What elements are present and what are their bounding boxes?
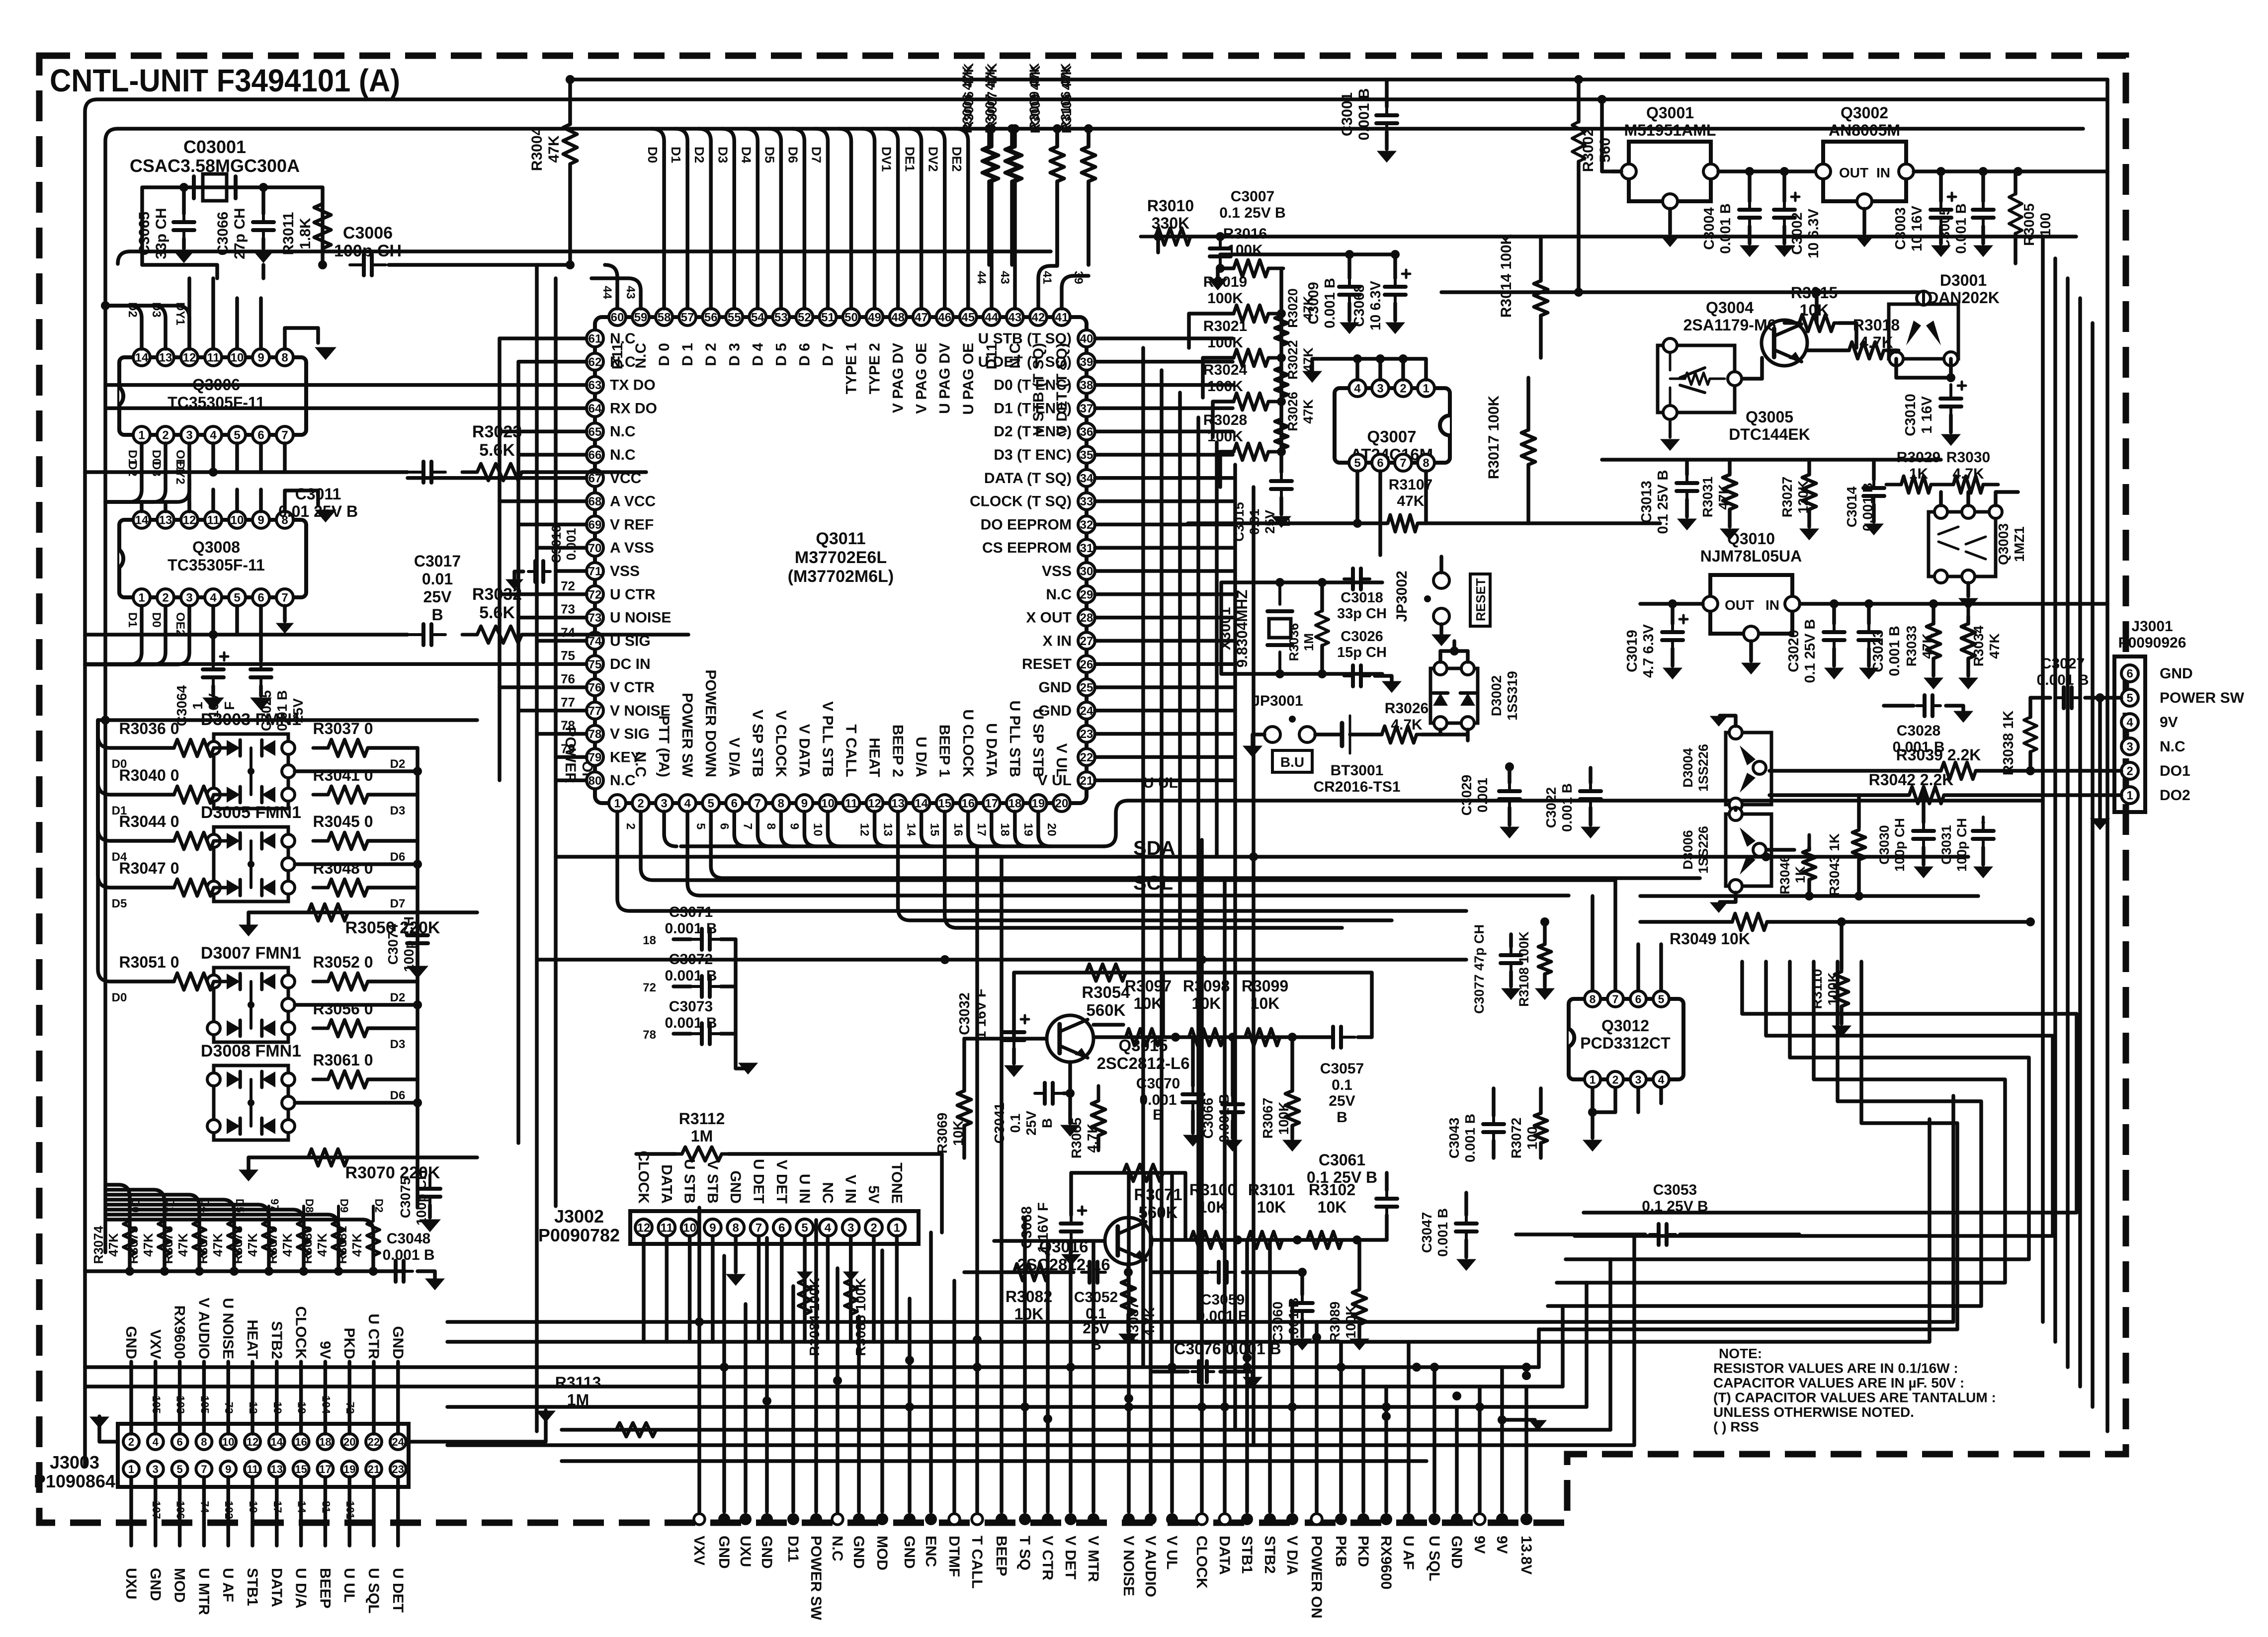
svg-text:TC35305F-11: TC35305F-11 xyxy=(168,556,265,574)
svg-text:JP3002: JP3002 xyxy=(1394,571,1410,622)
svg-text:73: 73 xyxy=(588,611,602,625)
svg-text:C3010: C3010 xyxy=(1903,394,1919,436)
svg-text:CS EEPROM: CS EEPROM xyxy=(982,540,1072,556)
svg-text:9V: 9V xyxy=(317,1341,333,1359)
svg-text:R3034: R3034 xyxy=(1971,625,1986,666)
svg-text:V PAG OE: V PAG OE xyxy=(914,343,930,414)
svg-text:75: 75 xyxy=(561,648,575,663)
svg-text:C3052: C3052 xyxy=(1074,1289,1118,1306)
svg-text:R3078: R3078 xyxy=(230,1226,245,1264)
battery BT3001 xyxy=(1315,733,1342,737)
wire right bundle verticals xyxy=(1141,348,1145,1367)
svg-text:BT3001: BT3001 xyxy=(1331,762,1384,779)
svg-text:D3: D3 xyxy=(715,147,730,163)
ground J3003 right xyxy=(409,1410,546,1442)
svg-text:C3030: C3030 xyxy=(1877,825,1892,865)
svg-text:0.001 B: 0.001 B xyxy=(1718,203,1734,254)
svg-text:10: 10 xyxy=(222,1436,234,1448)
svg-text:5: 5 xyxy=(1658,992,1665,1005)
svg-text:N.C: N.C xyxy=(610,423,636,440)
svg-text:10K: 10K xyxy=(1134,994,1163,1012)
svg-text:0.1 25V B: 0.1 25V B xyxy=(1219,205,1285,221)
svg-text:B: B xyxy=(431,606,443,624)
svg-text:R3007 47K: R3007 47K xyxy=(983,65,998,133)
svg-text:0.01: 0.01 xyxy=(422,570,453,588)
svg-text:15: 15 xyxy=(928,823,941,836)
ground ladder top xyxy=(1218,268,1234,278)
svg-text:R3097: R3097 xyxy=(1125,977,1172,995)
svg-text:UNLESS OTHERWISE NOTED.: UNLESS OTHERWISE NOTED. xyxy=(1713,1404,1914,1420)
svg-text:10 16V: 10 16V xyxy=(1909,205,1925,251)
resistor R3031 xyxy=(1723,460,1737,524)
wire Q3007 bottom pins xyxy=(1355,471,1359,523)
wire right bundle xyxy=(2041,237,2045,1322)
svg-text:D2: D2 xyxy=(126,461,139,477)
svg-text:R3014 100K: R3014 100K xyxy=(1498,234,1514,318)
svg-text:D0: D0 xyxy=(112,991,127,1004)
resistor R3066 xyxy=(1092,1086,1105,1150)
svg-text:R3071: R3071 xyxy=(1134,1185,1182,1204)
svg-text:KEY: KEY xyxy=(610,749,641,765)
wire Q3015 collector row xyxy=(1093,1023,1123,1027)
svg-text:6: 6 xyxy=(257,591,264,605)
resistor R3054 xyxy=(1071,964,1141,981)
svg-text:T CALL: T CALL xyxy=(969,1536,985,1589)
svg-text:1: 1 xyxy=(614,797,620,811)
wire lower rail1 xyxy=(1640,894,1978,898)
svg-text:U AF: U AF xyxy=(1400,1536,1417,1570)
svg-text:10: 10 xyxy=(231,351,244,365)
svg-text:V CLOCK: V CLOCK xyxy=(772,710,789,777)
svg-text:T SQ: T SQ xyxy=(1016,1536,1033,1570)
svg-text:R3110: R3110 xyxy=(1809,969,1825,1009)
svg-text:R3011: R3011 xyxy=(280,212,297,255)
svg-text:1 16V: 1 16V xyxy=(1919,396,1935,433)
svg-text:76: 76 xyxy=(561,671,575,686)
svg-text:6: 6 xyxy=(2126,667,2133,681)
svg-text:C3023: C3023 xyxy=(1870,630,1886,672)
resistor R3032 xyxy=(462,626,537,643)
svg-text:9V: 9V xyxy=(1494,1536,1510,1554)
svg-text:RX DO: RX DO xyxy=(610,400,657,416)
svg-text:20: 20 xyxy=(343,1436,355,1448)
svg-text:NC: NC xyxy=(819,1182,836,1204)
svg-text:V CTR: V CTR xyxy=(610,679,655,696)
svg-text:5: 5 xyxy=(708,797,714,811)
resistor row R3097 R3098 R3099 xyxy=(1093,1035,1332,1039)
svg-text:CNTL-UNIT F3494101 (A): CNTL-UNIT F3494101 (A) xyxy=(50,63,400,98)
svg-text:7: 7 xyxy=(281,429,288,442)
svg-text:D 0: D 0 xyxy=(656,343,672,366)
svg-text:R3031: R3031 xyxy=(1700,477,1715,518)
svg-text:2: 2 xyxy=(1400,382,1406,396)
svg-text:16: 16 xyxy=(951,823,965,836)
ceramic resonator C03001 xyxy=(192,176,196,198)
wire Q3004 collector xyxy=(1807,348,1849,352)
svg-text:D 2: D 2 xyxy=(703,343,719,366)
resistor R3005 xyxy=(2009,179,2022,248)
wire Q3005-Q3004 base xyxy=(1742,377,1762,381)
resistors R3006 R3007 R3009 R3106 risers xyxy=(990,129,994,147)
svg-text:25: 25 xyxy=(1080,681,1093,695)
resistors R3006 R3007 R3009 R3106 xyxy=(982,132,996,196)
wire bottom bus 4 xyxy=(85,1385,1563,1389)
capacitor C3075 xyxy=(428,1175,431,1189)
svg-text:6: 6 xyxy=(717,823,731,829)
svg-text:JP3001: JP3001 xyxy=(1252,693,1303,709)
svg-text:18: 18 xyxy=(998,823,1011,836)
svg-text:74: 74 xyxy=(561,625,575,640)
svg-text:D3: D3 xyxy=(390,804,406,818)
resistor R3039 body xyxy=(1926,762,1991,779)
svg-text:13: 13 xyxy=(271,1463,283,1475)
svg-text:1: 1 xyxy=(138,591,145,605)
svg-text:47K: 47K xyxy=(1301,399,1316,424)
svg-text:D5: D5 xyxy=(112,897,127,910)
wire ladder left leads xyxy=(1189,314,1234,348)
svg-text:1.8K: 1.8K xyxy=(297,218,314,249)
svg-text:0.001 B: 0.001 B xyxy=(1953,203,1969,254)
svg-text:41: 41 xyxy=(1055,311,1069,325)
resistor row R3100 R3101 R3102 xyxy=(1152,1238,1387,1242)
wire Q3012 pins bottom xyxy=(1591,1088,1595,1123)
svg-text:0.1: 0.1 xyxy=(1008,1114,1023,1133)
svg-text:3: 3 xyxy=(661,797,667,811)
IC Q3008 xyxy=(119,520,306,597)
svg-text:Q3007: Q3007 xyxy=(1367,427,1416,446)
svg-text:N.C: N.C xyxy=(610,330,636,347)
svg-text:3: 3 xyxy=(186,429,192,442)
svg-text:U AF: U AF xyxy=(220,1568,236,1602)
resistor ladder R3016-R3028 xyxy=(1219,260,1283,277)
svg-text:D1: D1 xyxy=(126,612,139,628)
svg-text:7: 7 xyxy=(755,797,761,811)
svg-text:BEEP: BEEP xyxy=(993,1536,1009,1576)
svg-text:12: 12 xyxy=(247,1436,258,1448)
svg-text:0.001 B: 0.001 B xyxy=(1860,483,1875,531)
svg-text:N.C: N.C xyxy=(1046,586,1072,603)
svg-text:R3020: R3020 xyxy=(1285,288,1300,328)
svg-text:D3002: D3002 xyxy=(1489,675,1504,717)
svg-text:U NOISE: U NOISE xyxy=(610,610,671,626)
svg-text:47K: 47K xyxy=(546,135,562,163)
svg-text:U STB: U STB xyxy=(681,1159,698,1204)
resistor R3033 xyxy=(1927,609,1940,673)
svg-text:DY1: DY1 xyxy=(173,302,187,326)
svg-text:C3029: C3029 xyxy=(1459,775,1474,816)
wire Q3008 top pins xyxy=(140,502,144,511)
svg-text:P0090926: P0090926 xyxy=(2118,635,2186,651)
capacitor C3065 xyxy=(182,187,186,214)
resistor R3040 row xyxy=(159,786,229,803)
svg-text:TYPE 1: TYPE 1 xyxy=(843,343,860,394)
resistor R3070 xyxy=(249,1157,477,1170)
svg-text:SCL: SCL xyxy=(1133,872,1173,894)
svg-text:25V: 25V xyxy=(1329,1093,1355,1109)
svg-text:0.1: 0.1 xyxy=(1332,1077,1352,1093)
capacitor C3066 xyxy=(261,187,265,214)
svg-text:D6: D6 xyxy=(785,147,800,163)
svg-text:D 3: D 3 xyxy=(726,343,743,366)
wire IC bottom long drops xyxy=(617,812,1466,911)
svg-text:D3001: D3001 xyxy=(1940,271,1987,289)
svg-text:24: 24 xyxy=(392,1436,405,1448)
resistor R3069 xyxy=(957,1076,971,1141)
svg-text:PTT (PA): PTT (PA) xyxy=(656,716,672,777)
svg-text:10: 10 xyxy=(811,823,824,836)
connector J3003 pins xyxy=(123,1434,139,1450)
wire bus right risers xyxy=(1951,1096,1955,1322)
svg-text:Q3008: Q3008 xyxy=(192,538,240,556)
svg-text:R3040 0: R3040 0 xyxy=(119,766,179,784)
svg-text:21: 21 xyxy=(368,1463,380,1475)
transistor Q3016 xyxy=(1105,1218,1152,1264)
transistor Q3015 xyxy=(1047,1015,1093,1062)
svg-text:C3006: C3006 xyxy=(343,224,393,243)
svg-text:CLOCK (T SQ): CLOCK (T SQ) xyxy=(970,493,1072,510)
svg-text:U IN: U IN xyxy=(796,1174,813,1204)
svg-text:T CALL: T CALL xyxy=(843,724,859,777)
svg-text:9.8304MHZ: 9.8304MHZ xyxy=(1234,590,1251,668)
svg-text:15: 15 xyxy=(938,797,951,811)
svg-text:IN: IN xyxy=(1765,597,1779,613)
svg-text:19: 19 xyxy=(1021,823,1035,836)
svg-text:50: 50 xyxy=(844,311,858,325)
svg-text:D3003 FMN1: D3003 FMN1 xyxy=(201,710,301,729)
svg-text:DY2: DY2 xyxy=(173,461,187,485)
resistor R3036x xyxy=(1316,596,1329,660)
capacitor C3068 xyxy=(1394,273,1397,287)
svg-text:X IN: X IN xyxy=(1043,633,1072,649)
svg-text:R3046: R3046 xyxy=(1777,855,1792,895)
svg-text:36: 36 xyxy=(1080,425,1093,439)
svg-text:R3006 47K: R3006 47K xyxy=(960,65,975,133)
svg-text:D2: D2 xyxy=(692,147,707,163)
svg-text:9: 9 xyxy=(801,797,808,811)
svg-text:0.001 B: 0.001 B xyxy=(1462,1114,1478,1162)
svg-text:R3041 0: R3041 0 xyxy=(313,766,373,784)
svg-text:3: 3 xyxy=(186,591,192,605)
svg-text:N.C: N.C xyxy=(610,354,636,370)
svg-text:4: 4 xyxy=(210,429,217,442)
svg-text:R3069: R3069 xyxy=(934,1113,950,1154)
wire top bus line 4 xyxy=(570,78,2107,82)
svg-text:D9: D9 xyxy=(338,1199,350,1213)
connector J3001 xyxy=(2114,656,2145,812)
svg-text:37: 37 xyxy=(1080,402,1093,415)
svg-text:R3021: R3021 xyxy=(1203,318,1247,334)
svg-text:C3075: C3075 xyxy=(398,1177,413,1219)
regulator Q3010 xyxy=(1710,575,1792,634)
svg-text:C3068: C3068 xyxy=(1351,284,1367,327)
svg-text:D0: D0 xyxy=(645,147,660,163)
crystal X3001 xyxy=(1278,582,1281,604)
svg-text:R3038 1K: R3038 1K xyxy=(2001,711,2016,776)
svg-text:4: 4 xyxy=(2126,716,2133,730)
wire bottom bus 2 xyxy=(447,1340,1930,1344)
wire top bus line 2 xyxy=(105,129,2083,1252)
svg-text:C3061: C3061 xyxy=(1319,1151,1365,1169)
svg-text:43: 43 xyxy=(1008,311,1021,325)
svg-text:R3048 0: R3048 0 xyxy=(313,859,373,877)
svg-text:R3010: R3010 xyxy=(1147,197,1194,215)
svg-text:DTC144EK: DTC144EK xyxy=(1729,425,1810,443)
resistor R3084 xyxy=(798,1265,811,1329)
svg-text:14: 14 xyxy=(271,1436,283,1448)
svg-text:52: 52 xyxy=(798,311,811,325)
diode array D3005 xyxy=(214,827,288,901)
svg-text:C3047: C3047 xyxy=(1419,1212,1434,1253)
svg-text:POWER ON: POWER ON xyxy=(1308,1536,1325,1619)
svg-text:V UL: V UL xyxy=(1038,772,1072,789)
svg-text:C3031: C3031 xyxy=(1939,825,1954,865)
svg-text:VXV: VXV xyxy=(691,1536,707,1565)
svg-text:R3065: R3065 xyxy=(1069,1118,1084,1159)
wire IC left pin stubs xyxy=(500,336,587,340)
svg-text:N.C: N.C xyxy=(610,447,636,463)
svg-text:DE1: DE1 xyxy=(903,147,918,172)
capacitor C3057 xyxy=(1319,1036,1333,1039)
svg-text:44: 44 xyxy=(975,271,988,284)
svg-text:V AUDIO: V AUDIO xyxy=(1142,1536,1159,1597)
svg-text:RX9600: RX9600 xyxy=(1378,1536,1394,1589)
svg-text:18: 18 xyxy=(643,934,656,947)
svg-text:28: 28 xyxy=(1080,611,1093,625)
svg-text:V MTR: V MTR xyxy=(1085,1536,1101,1582)
svg-text:GND: GND xyxy=(758,1536,775,1569)
svg-text:0.001: 0.001 xyxy=(1139,1092,1176,1108)
ground J3003 left xyxy=(99,1416,118,1442)
svg-text:U DATA: U DATA xyxy=(983,723,1000,777)
svg-text:76: 76 xyxy=(588,681,602,695)
capacitor C3011 xyxy=(410,471,423,474)
junction crystal right xyxy=(259,183,268,192)
svg-text:C3074: C3074 xyxy=(385,923,401,965)
svg-text:D5: D5 xyxy=(762,147,777,163)
svg-text:(M37702M6L): (M37702M6L) xyxy=(788,567,894,586)
svg-text:5.6K: 5.6K xyxy=(479,441,515,460)
svg-text:71: 71 xyxy=(588,565,602,578)
wire bottom bus 3 xyxy=(85,1365,1539,1369)
svg-text:PKB: PKB xyxy=(1333,1536,1349,1567)
resistor R3051 row xyxy=(159,973,229,990)
svg-text:59: 59 xyxy=(634,311,648,325)
svg-text:U DET: U DET xyxy=(390,1568,406,1613)
resistor R3056 row xyxy=(313,1020,383,1037)
IC Q3012 xyxy=(1569,999,1683,1079)
svg-text:31: 31 xyxy=(1080,542,1093,555)
wire bottom bus 5 xyxy=(447,1405,1587,1409)
svg-text:43: 43 xyxy=(998,271,1011,284)
microcontroller U Q3011 body xyxy=(595,317,1087,803)
svg-text:R3022: R3022 xyxy=(1285,340,1300,380)
svg-text:Q3010: Q3010 xyxy=(1727,530,1775,548)
svg-text:D6: D6 xyxy=(390,850,406,864)
svg-text:OE2: OE2 xyxy=(173,612,187,636)
svg-text:13.8V: 13.8V xyxy=(1518,1536,1534,1574)
svg-text:22: 22 xyxy=(1080,751,1093,764)
svg-text:100p CH: 100p CH xyxy=(401,916,417,972)
svg-text:J3002: J3002 xyxy=(554,1206,604,1227)
svg-text:B.U: B.U xyxy=(1280,754,1304,770)
svg-text:10: 10 xyxy=(231,514,244,527)
svg-text:1SS226: 1SS226 xyxy=(1696,744,1711,792)
resistor R3010 body xyxy=(1141,228,1205,245)
svg-text:1M: 1M xyxy=(1301,633,1316,651)
svg-text:DO2: DO2 xyxy=(2160,787,2190,804)
svg-text:0.001 B: 0.001 B xyxy=(382,1247,434,1263)
svg-text:C3027: C3027 xyxy=(2041,655,2085,672)
svg-text:NOTE:: NOTE: xyxy=(1719,1346,1762,1361)
transistor Q3005 xyxy=(1658,345,1735,412)
svg-text:C3013: C3013 xyxy=(1639,481,1655,523)
svg-text:14: 14 xyxy=(135,514,149,527)
svg-text:0.1: 0.1 xyxy=(1086,1306,1106,1322)
svg-text:R3100: R3100 xyxy=(1189,1181,1236,1199)
svg-text:3: 3 xyxy=(153,1463,159,1475)
wire D3001 bottom xyxy=(1894,359,1898,378)
wire left bundle verticals xyxy=(498,338,502,780)
svg-text:OUT: OUT xyxy=(1725,597,1754,613)
wire X3001 box xyxy=(1221,582,1382,674)
svg-text:560K: 560K xyxy=(1087,1001,1126,1019)
svg-text:9: 9 xyxy=(257,351,264,365)
svg-text:DC IN: DC IN xyxy=(610,656,651,672)
svg-text:10K: 10K xyxy=(1257,1198,1286,1216)
svg-text:R3082: R3082 xyxy=(1006,1288,1052,1306)
svg-text:47K: 47K xyxy=(1920,633,1935,658)
svg-text:DATA: DATA xyxy=(1216,1536,1233,1575)
svg-text:V REF: V REF xyxy=(610,516,654,533)
svg-text:R3099: R3099 xyxy=(1242,977,1288,995)
svg-text:C3014: C3014 xyxy=(1844,486,1859,527)
capacitor C3028 xyxy=(1884,704,1914,708)
svg-text:D3005 FMN1: D3005 FMN1 xyxy=(201,803,301,822)
svg-text:U CLOCK: U CLOCK xyxy=(960,709,976,777)
svg-text:4: 4 xyxy=(153,1436,159,1448)
svg-text:U NOISE: U NOISE xyxy=(220,1298,236,1359)
svg-text:R3101: R3101 xyxy=(1248,1181,1295,1199)
svg-text:44: 44 xyxy=(985,311,998,325)
svg-text:10K: 10K xyxy=(1318,1198,1347,1216)
svg-text:U D/A: U D/A xyxy=(293,1568,309,1609)
svg-text:100K: 100K xyxy=(1207,290,1243,307)
svg-text:78: 78 xyxy=(561,718,575,733)
capacitor C3059 xyxy=(1152,1270,1208,1274)
svg-text:4: 4 xyxy=(1658,1073,1665,1086)
capacitor C3018 xyxy=(1344,577,1353,580)
svg-text:F: F xyxy=(222,701,237,710)
capacitor C3025 xyxy=(259,635,263,661)
resistor R3087 xyxy=(1121,1265,1135,1329)
svg-text:STB2: STB2 xyxy=(1261,1536,1278,1574)
svg-text:1: 1 xyxy=(894,1222,900,1235)
wire bottom bus 8 xyxy=(562,1459,1427,1463)
wire IC top pins risers xyxy=(605,265,617,309)
svg-text:POWER SW: POWER SW xyxy=(679,693,695,778)
wire J3003 top pin wires xyxy=(129,1362,133,1434)
svg-text:13: 13 xyxy=(891,797,905,811)
svg-text:C3004: C3004 xyxy=(1701,207,1717,249)
connector J3002 pins xyxy=(635,1219,652,1236)
svg-text:D7: D7 xyxy=(390,897,406,910)
resistor R3047 row xyxy=(159,879,229,896)
svg-text:GND: GND xyxy=(850,1536,867,1569)
svg-text:79: 79 xyxy=(561,741,575,756)
svg-text:13: 13 xyxy=(159,514,172,527)
svg-text:120K: 120K xyxy=(1795,481,1811,514)
diode array D3006 xyxy=(1726,814,1771,886)
